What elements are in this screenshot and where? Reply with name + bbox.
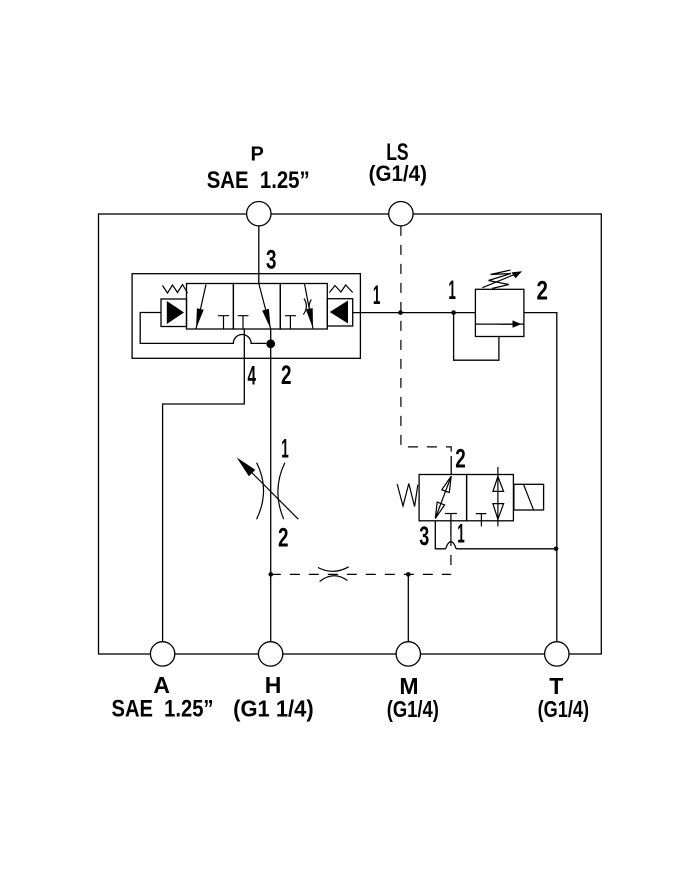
port T circle bbox=[545, 642, 569, 666]
right pilot box bbox=[327, 299, 352, 326]
right spring bbox=[329, 285, 352, 293]
svg-text:2: 2 bbox=[281, 360, 292, 390]
left pilot triangle bbox=[167, 301, 184, 324]
directional valve position box right bbox=[280, 284, 327, 330]
directional valve position box left bbox=[187, 284, 234, 330]
svg-text:(G1/4): (G1/4) bbox=[369, 161, 427, 186]
3-way valve V2 left box bbox=[419, 475, 467, 521]
svg-text:SAE 1.25”: SAE 1.25” bbox=[207, 167, 310, 194]
right box blocked port T bbox=[285, 316, 296, 329]
svg-text:1: 1 bbox=[281, 433, 289, 463]
left spring bbox=[163, 285, 188, 294]
directional valve position box middle bbox=[233, 284, 280, 330]
svg-text:1: 1 bbox=[457, 519, 465, 549]
relief valve adjustable spring bbox=[489, 270, 512, 289]
left box blocked port T bbox=[218, 316, 229, 329]
right box throttle arrow bbox=[305, 284, 314, 329]
svg-text:3: 3 bbox=[419, 521, 429, 551]
relief valve internal line bbox=[475, 323, 524, 325]
wire 3-way valve port 1 dashed down bbox=[450, 514, 452, 537]
svg-text:1: 1 bbox=[373, 280, 381, 310]
wire pilot bypass with jump over port4 line bbox=[140, 313, 266, 344]
relief valve V1 box bbox=[475, 289, 524, 336]
svg-text:SAE 1.25”: SAE 1.25” bbox=[112, 696, 214, 723]
svg-text:(G1/4): (G1/4) bbox=[387, 696, 439, 722]
3-way right box arrow bbox=[497, 467, 499, 526]
port LS circle bbox=[389, 202, 413, 226]
manifold block border bbox=[99, 214, 602, 654]
orifice restrictor on dashed line bbox=[318, 567, 349, 582]
throttle valve F1 arcs bbox=[257, 463, 285, 520]
node junction port3 wire on T line bbox=[554, 547, 559, 552]
node junction relief drain on port1 line bbox=[451, 310, 456, 315]
svg-text:1: 1 bbox=[448, 275, 456, 305]
3-way solenoid box bbox=[514, 484, 544, 510]
wire valve port 1 to relief valve bbox=[353, 312, 476, 314]
directional valve U1 outer envelope bbox=[132, 274, 360, 359]
wire valve port 2 to H port through throttle bbox=[270, 329, 272, 642]
svg-text:2: 2 bbox=[278, 523, 289, 553]
svg-text:A: A bbox=[153, 672, 170, 698]
wire dashed pilot line with orifice to H line bbox=[271, 573, 451, 575]
port M circle bbox=[396, 642, 420, 666]
3-way spring bbox=[397, 484, 418, 507]
svg-text:(G1/4): (G1/4) bbox=[538, 696, 589, 722]
svg-text:3: 3 bbox=[266, 245, 277, 275]
svg-text:H: H bbox=[265, 672, 282, 698]
svg-text:2: 2 bbox=[537, 276, 548, 306]
right pilot triangle bbox=[330, 301, 348, 324]
left box arrow bbox=[196, 285, 206, 329]
middle box arrow from P bbox=[259, 284, 271, 330]
3-way valve right box bbox=[467, 475, 514, 521]
port A circle bbox=[150, 642, 174, 666]
relief valve internal arrow bbox=[499, 323, 517, 325]
port H circle bbox=[258, 642, 282, 666]
svg-text:2: 2 bbox=[455, 443, 466, 473]
wire P port down to valve bbox=[258, 226, 260, 284]
3-way left box blocked port T bbox=[445, 513, 457, 515]
throttle valve F1 arrow bbox=[240, 461, 298, 519]
3-way left box arrow bbox=[435, 476, 451, 518]
svg-text:4: 4 bbox=[247, 361, 256, 391]
node junction LS on port1 line bbox=[398, 310, 403, 315]
node junction M line on dashed line bbox=[406, 572, 411, 577]
wire relief valve drain loop bbox=[454, 313, 499, 361]
wire LS pilot dashed line down and to 3-way valve port 2 bbox=[401, 226, 451, 458]
wire relief valve port2 to T line bbox=[524, 313, 557, 642]
left pilot box bbox=[161, 299, 187, 327]
svg-text:(G1 1/4): (G1 1/4) bbox=[233, 696, 314, 722]
node port2 junction under valve bbox=[266, 339, 275, 348]
wire M port to pilot dashed line bbox=[407, 574, 409, 641]
middle box blocked port T bbox=[238, 316, 249, 329]
wire valve port 4 to A port bbox=[163, 329, 245, 642]
wire 3-way valve port 2 stub bbox=[450, 456, 452, 475]
svg-text:P: P bbox=[251, 144, 264, 166]
port P circle bbox=[247, 202, 271, 226]
wire 3-way valve port 3 to T line with jump bbox=[435, 521, 557, 549]
3-way right box blocked port T bbox=[476, 514, 487, 527]
node junction dashed line on H line bbox=[269, 572, 274, 577]
